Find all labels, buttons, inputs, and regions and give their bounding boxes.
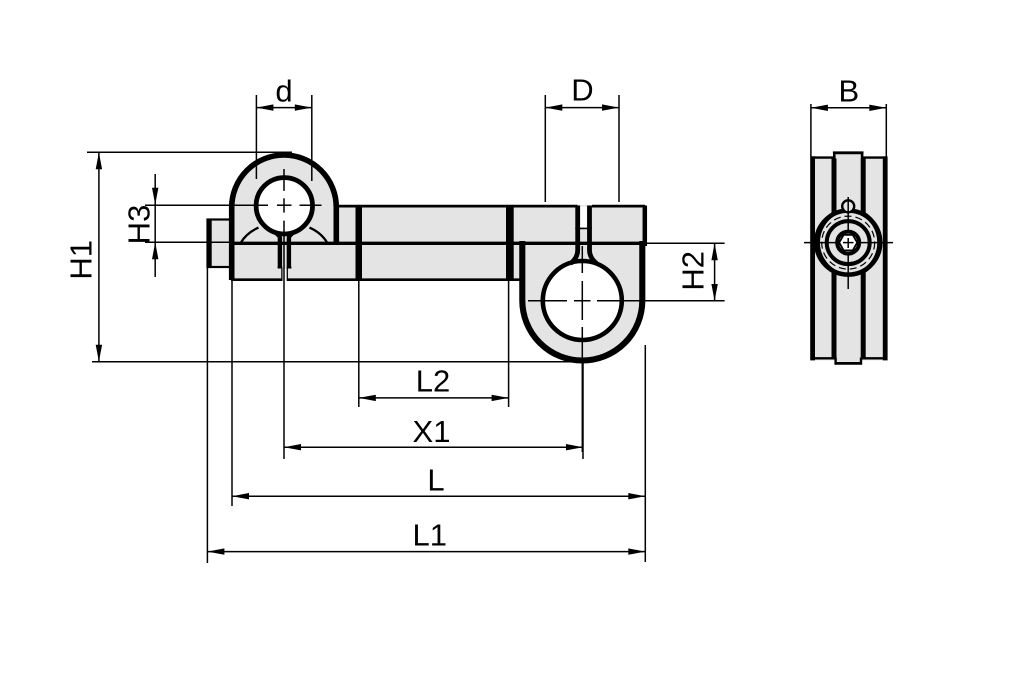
- dimension H3: [122, 174, 159, 277]
- dimension H1: [64, 152, 584, 361]
- right block left edge: [511, 205, 513, 281]
- bore hole D (right clamp): [543, 261, 622, 340]
- bore hole d (left ring): [256, 178, 312, 234]
- hex socket: [839, 235, 857, 251]
- dimension L2: [359, 281, 509, 407]
- left clamp jaw inner edges: [241, 228, 259, 243]
- svg-text:L1: L1: [412, 518, 446, 553]
- tube top edge: [336, 205, 577, 208]
- dimension H2: [676, 243, 718, 301]
- dimension L: [232, 281, 645, 562]
- svg-text:L2: L2: [416, 363, 450, 398]
- parting line (clamp halves split): [231, 242, 645, 245]
- tube section divider (right): [506, 205, 512, 281]
- centerline left hole horizontal: [145, 204, 322, 206]
- svg-text:L: L: [427, 463, 444, 498]
- side view crosshair: [804, 197, 893, 289]
- right clamp top block: [512, 205, 646, 281]
- centerline right bore vertical / X1 extension: [581, 246, 583, 452]
- svg-text:H1: H1: [64, 240, 99, 280]
- right clamp slit: [571, 206, 597, 264]
- tube body (front view): [231, 205, 645, 280]
- left clamp slit: [277, 234, 292, 281]
- tube section divider (left): [356, 205, 363, 281]
- clamp ring C2 body (inverted strap): [522, 241, 642, 361]
- svg-text:B: B: [838, 74, 859, 109]
- side view slit hole: [842, 200, 854, 212]
- dimension d: [256, 73, 311, 181]
- dimension X1: [284, 362, 583, 459]
- tube bottom edge: [231, 278, 282, 281]
- clamp ring C1 body (omega strap): [232, 155, 337, 280]
- side view boss rings: [816, 211, 880, 275]
- rod axis centerline right (H2 extension): [645, 242, 725, 244]
- right block right edge: [643, 206, 648, 247]
- svg-text:H2: H2: [676, 251, 711, 291]
- svg-text:X1: X1: [413, 414, 451, 449]
- dimension D: [545, 73, 619, 203]
- side view slab: [811, 151, 887, 364]
- centerline right bore horizontal: [528, 300, 725, 302]
- svg-text:H3: H3: [122, 205, 157, 245]
- dimension L1: [207, 268, 645, 563]
- svg-text:d: d: [275, 73, 292, 108]
- rod end block: [208, 219, 232, 268]
- centerline left hole vertical / X1 extension: [283, 169, 285, 459]
- svg-text:D: D: [571, 73, 593, 108]
- rod axis centerline left (H3 extension): [145, 241, 231, 243]
- side view boss flank arcs: [818, 214, 834, 272]
- dimension B: [811, 74, 886, 158]
